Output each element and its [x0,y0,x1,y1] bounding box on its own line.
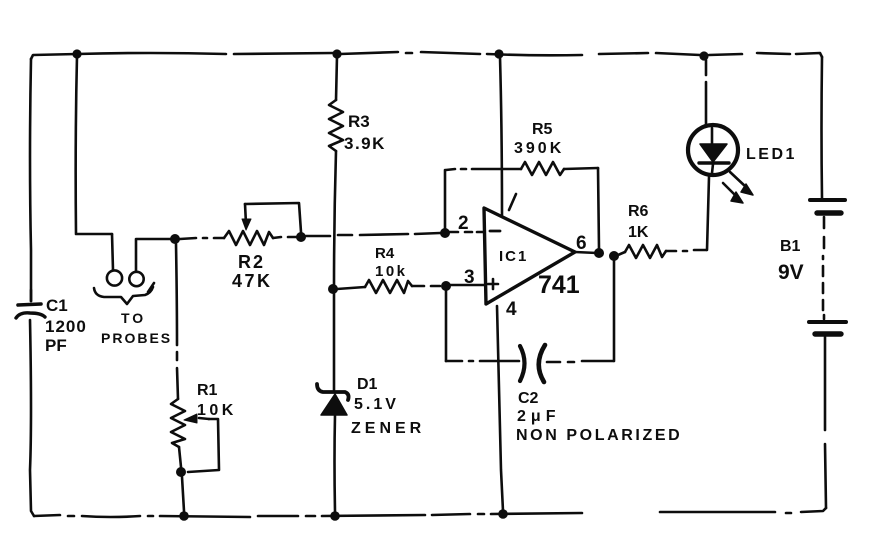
wire R5 feedback top left (dash-dot) [446,169,455,170]
svg-text:10k: 10k [375,263,408,280]
svg-text:IC1: IC1 [499,248,528,265]
wire from node A down to probes row [76,56,77,233]
wire C1 top stub [30,290,33,301]
node R1 bracket junction [176,467,186,477]
svg-text:9V: 9V [778,261,804,284]
battery B1 cell1 short plate [817,210,841,215]
label C1 [45,296,87,355]
wire R5 feedback right vertical [598,168,599,249]
svg-text:390K: 390K [514,140,564,157]
wire C2 left vertical from pin3 [445,291,448,361]
svg-text:6: 6 [576,233,587,254]
svg-text:1200: 1200 [45,317,87,336]
R2 wiper bracket [245,203,301,232]
LED cathode bar [699,161,729,164]
probe jack J2 [129,272,143,286]
LED internal stub [711,128,714,144]
svg-text:R1: R1 [197,382,218,399]
svg-text:C1: C1 [46,296,68,315]
label R2 value [232,252,273,291]
node pin3 junction [441,281,451,291]
potentiometer R2 [224,231,273,245]
wire R5 to right vertical [564,168,598,169]
wire output to R6 (dash) [618,252,625,255]
label TO PROBES [101,310,172,346]
svg-text:NON POLARIZED: NON POLARIZED [516,427,682,444]
resistor R4 [365,280,412,293]
node bottom rail junction pin4 [498,509,508,519]
wire R6 to LED (dash-dot) [666,250,676,253]
label op-amp pins [458,213,587,320]
label R1 value [197,382,237,419]
svg-text:PROBES: PROBES [101,330,172,346]
probe slash [148,283,154,292]
node R3/R4/zener junction [328,284,338,294]
svg-text:C2: C2 [518,390,539,407]
LED LED1 circle [688,125,738,175]
wire R4 left stub [337,287,365,289]
node output junction 1 [594,248,604,258]
R1 wiper arrow [199,418,209,419]
label pin 7 slash [509,194,516,210]
wire C2 right vertical to output [613,261,616,361]
resistor R3 [329,100,343,151]
wire probe1 drop [112,234,113,270]
svg-text:LED1: LED1 [746,146,797,163]
wire probe2 rise [136,239,171,271]
svg-text:R4: R4 [375,245,395,262]
R2 wiper arrow [245,204,246,224]
wire pin4 down to bottom rail [497,306,503,511]
wire R2 to bracket node [273,237,281,238]
wire LED top from rail (dash then solid) [705,60,708,75]
node probes/R1/R2 junction [170,234,180,244]
svg-text:4: 4 [506,299,517,320]
battery B1 cell2 short plate [815,331,841,336]
svg-text:R6: R6 [628,203,649,220]
node top rail junction B [332,49,341,58]
svg-text:741: 741 [538,271,580,299]
wire pin2 input (dash-dot) [449,231,458,234]
label B1 value [778,238,804,284]
label R5 value [514,121,564,157]
svg-text:TO: TO [121,310,146,326]
wire top rail [31,54,77,59]
svg-text:3: 3 [464,267,475,288]
probe bracket [94,287,153,304]
svg-text:R5: R5 [532,121,553,138]
node pin2 junction [440,228,450,238]
node R2 bracket junction [296,232,306,242]
wire battery bottom vertical [824,337,827,430]
wire LED bottom vertical [707,177,709,250]
node top rail junction C [494,49,503,58]
svg-text:3.9K: 3.9K [344,134,386,153]
svg-text:R2: R2 [238,252,265,272]
wire R3 top stub [336,56,337,100]
node bottom rail junction R1 [179,511,189,521]
op-amp U1 triangle [484,208,575,304]
capacitor C1 [18,304,41,305]
wire R5 feedback left vertical [444,170,447,228]
wire op-amp output [575,252,597,253]
wire zener bottom [333,415,336,511]
wire R1 vertical from node [176,244,177,345]
LED light arrow 2 [723,183,736,196]
wire pin7 supply from top rail [500,57,502,215]
svg-text:5.1V: 5.1V [354,396,399,413]
node top rail junction A [72,49,81,58]
wire C2 right horizontal (dash) [547,361,560,364]
resistor R6 [625,245,666,258]
label C2 value [516,390,682,444]
wire R1 bottom [179,447,181,467]
wire left border vertical [30,59,31,301]
battery B1 cell2 long plate [809,320,846,324]
wire C2 left horizontal (dash-dot) [446,360,462,363]
node bottom rail junction D1 [330,511,340,521]
wire zener top [333,293,336,392]
probe jack J1 [107,270,122,285]
R1 wiper bracket [188,419,219,472]
potentiometer R1 [171,399,185,447]
wire battery top vertical [820,57,823,198]
wire R4 right stub (dash) [412,285,424,288]
capacitor C2 [520,346,525,381]
label D1 value [351,376,425,437]
battery B1 cell1 long plate [810,198,845,202]
svg-text:ZENER: ZENER [351,420,425,437]
svg-text:10K: 10K [197,402,237,419]
LED triangle [700,144,727,162]
svg-text:R3: R3 [348,112,370,131]
pin3 plus sign [488,279,498,289]
node output junction 2 [609,251,619,261]
svg-text:2: 2 [458,213,469,234]
zener diode D1 [317,384,349,400]
pin2 minus sign [490,230,500,233]
wire probes horizontal left [76,233,112,236]
wire node to R2 (dash-dot) [180,238,196,239]
svg-text:1K: 1K [628,224,649,241]
resistor R5 [521,162,564,175]
LED light arrow 1 [730,172,746,187]
svg-text:D1: D1 [357,376,378,393]
wire R2 node to pin2 node (dash-dot, crosses R3 line) [306,235,330,238]
wire bottom rail [34,515,60,516]
wire R3 bottom to R4 node [334,151,336,287]
svg-text:B1: B1 [780,238,801,255]
label R4 value [375,245,408,280]
svg-text:PF: PF [45,336,67,355]
label R6 value [628,203,649,241]
wire pin3 input [450,284,484,287]
wire battery middle dashes [823,217,826,228]
node top rail junction D [699,51,708,60]
svg-text:47K: 47K [232,271,273,291]
svg-text:2μF: 2μF [517,408,560,425]
label R3 value [344,112,386,153]
